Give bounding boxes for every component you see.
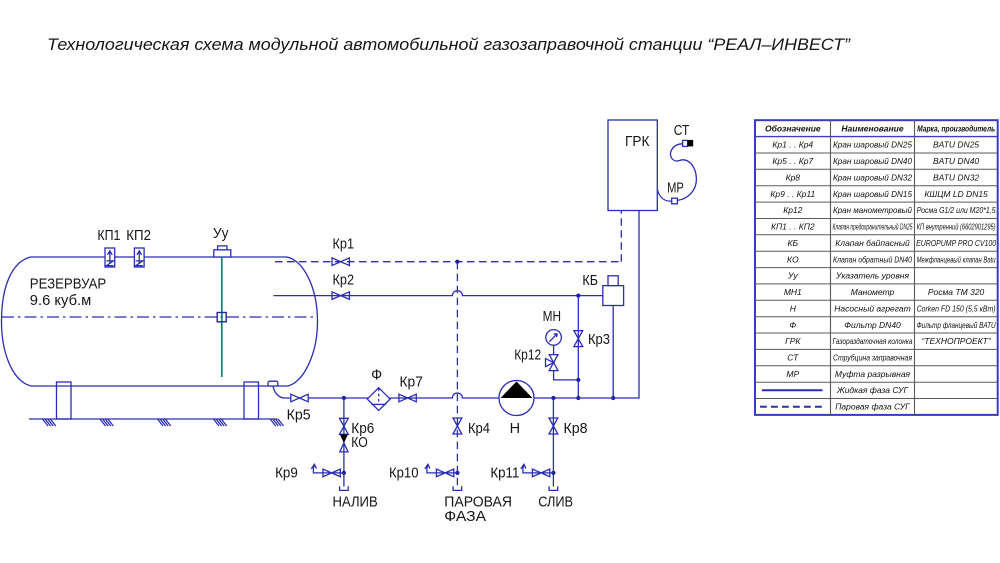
wire: Кр9 branch (313, 472, 344, 474)
support leg left (57, 382, 72, 419)
svg-text:Ф: Ф (789, 320, 796, 330)
valve Кр9 (323, 469, 340, 477)
svg-text:Насосный агрегат: Насосный агрегат (834, 303, 910, 313)
svg-text:КО: КО (351, 435, 368, 451)
valve Кр4 (453, 418, 462, 434)
svg-text:Кр1 . . Кр4: Кр1 . . Кр4 (772, 140, 813, 150)
table row Кр9..Кр11 (770, 189, 988, 199)
table header (765, 123, 995, 133)
svg-text:КБ: КБ (582, 273, 598, 289)
svg-text:КБ: КБ (788, 238, 799, 248)
valve Кр10 (436, 469, 453, 477)
svg-text:СЛИВ: СЛИВ (538, 495, 573, 511)
svg-text:Межфланцевый клапан Batu: Межфланцевый клапан Batu (917, 254, 996, 264)
table row Кр5..Кр7 (772, 156, 979, 166)
svg-text:Фильтр DN40: Фильтр DN40 (844, 320, 901, 330)
svg-text:Кр9: Кр9 (275, 466, 298, 482)
node: vapor branch junction (455, 260, 459, 264)
node: Кр10 branch junction (455, 471, 459, 475)
safety valve КП2 (134, 248, 144, 267)
svg-text:Кр7: Кр7 (400, 375, 423, 391)
svg-text:Указатель уровня: Указатель уровня (835, 271, 909, 281)
svg-text:КО: КО (787, 254, 799, 264)
svg-text:Клапан байпасный: Клапан байпасный (835, 238, 910, 248)
svg-text:Ф: Ф (371, 368, 382, 384)
svg-text:НАЛИВ: НАЛИВ (333, 495, 378, 511)
svg-text:EUROPUMP PRO CV100: EUROPUMP PRO CV100 (916, 238, 996, 248)
svg-text:Кр12: Кр12 (514, 348, 541, 364)
svg-text:Кр11: Кр11 (490, 466, 519, 482)
svg-text:Кран шаровый DN25: Кран шаровый DN25 (833, 140, 912, 150)
svg-text:Клапан обратный DN40: Клапан обратный DN40 (833, 254, 912, 264)
table row КБ (788, 238, 997, 248)
valve Кр1 (332, 258, 349, 266)
wire: МН to Кр12 (553, 345, 555, 354)
level gauge float square (217, 313, 226, 322)
wire: Кр12 down and right to Кр3 riser (554, 371, 579, 380)
tank РЕЗЕРВУАР shell (2, 257, 318, 386)
manometer valve Кр12 (3-way) (546, 355, 558, 371)
wire: vapor phase vertical dashed (ПАРОВАЯ ФАЗА) (456, 262, 458, 487)
wire: Кр3 riser (577, 296, 579, 398)
svg-text:МН1: МН1 (784, 287, 802, 297)
svg-text:Обозначение: Обозначение (765, 123, 821, 133)
svg-text:Кр10: Кр10 (389, 466, 419, 482)
nozzle СТ (683, 140, 694, 147)
vent arrow Кр10 (425, 464, 430, 473)
svg-text:Газораздаточная колонка: Газораздаточная колонка (833, 336, 913, 346)
svg-text:РЕЗЕРВУАР: РЕЗЕРВУАР (30, 277, 106, 293)
svg-text:ГРК: ГРК (785, 336, 801, 346)
table row liquid phase sample (762, 385, 909, 395)
svg-text:Струбцина заправочная: Струбцина заправочная (833, 353, 912, 363)
table row КО (787, 254, 996, 264)
valve Кр5 (291, 394, 308, 402)
safety valve КП1 (105, 248, 115, 267)
svg-text:Кран шаровый DN32: Кран шаровый DN32 (833, 172, 912, 182)
table row МР (786, 369, 910, 379)
wire: КБ down to pump line (612, 306, 614, 399)
svg-text:Кран шаровый DN15: Кран шаровый DN15 (833, 189, 912, 199)
svg-text:СТ: СТ (787, 353, 799, 363)
svg-text:Манометр: Манометр (851, 287, 895, 297)
svg-text:Н: Н (510, 421, 520, 437)
manometer МН (546, 330, 562, 346)
wire: vapor phase dashed line tank to corner (275, 261, 621, 263)
level gauge Уу fitting (214, 246, 231, 257)
svg-text:Кран шаровый DN40: Кран шаровый DN40 (833, 156, 912, 166)
svg-text:Кр9 . . Кр11: Кр9 . . Кр11 (770, 189, 815, 199)
end fitting ПАРОВАЯ ФАЗА (453, 486, 462, 490)
valve Кр8 (549, 418, 558, 434)
wire: vapor dashed riser to ГРК (620, 211, 622, 262)
svg-text:Клапан предохранительный DN25: Клапан предохранительный DN25 (833, 222, 913, 232)
svg-text:Росма G1/2 или М20*1,5: Росма G1/2 или М20*1,5 (917, 205, 996, 215)
svg-text:Кр3: Кр3 (588, 332, 610, 348)
svg-text:ФАЗА: ФАЗА (444, 509, 486, 525)
table row Кр1..Кр4 (772, 140, 979, 150)
table row Кр8 (786, 172, 980, 182)
svg-text:КП1: КП1 (97, 228, 120, 244)
svg-text:СТ: СТ (674, 123, 690, 139)
svg-text:BATU DN25: BATU DN25 (933, 140, 979, 150)
node: junction liquid line / Кр3 riser (576, 294, 580, 298)
svg-text:Кр5 . . Кр7: Кр5 . . Кр7 (772, 156, 813, 166)
breakaway coupling МР (672, 198, 678, 204)
valve Кр11 (532, 469, 549, 477)
pump Н (499, 381, 534, 416)
svg-text:Кр1: Кр1 (333, 236, 355, 252)
svg-text:ГРК: ГРК (625, 134, 650, 150)
support leg right (244, 382, 259, 419)
table row ГРК (785, 336, 992, 346)
svg-text:Наименование: Наименование (841, 123, 903, 133)
valve Кр3 (574, 331, 583, 347)
ground (29, 419, 284, 426)
svg-text:МР: МР (786, 369, 799, 379)
filter Ф (367, 388, 390, 411)
valve Кр7 (399, 394, 416, 402)
svg-text:Кр4: Кр4 (468, 421, 490, 437)
svg-text:Технологическая схема модульно: Технологическая схема модульной автомоби… (47, 35, 851, 54)
table row Н (790, 303, 996, 313)
node: Кр6 branch junction (342, 396, 346, 400)
svg-text:Фильтр фланцевый BATU: Фильтр фланцевый BATU (917, 320, 997, 330)
table row МН1 (784, 287, 985, 297)
check valve КО (340, 435, 348, 452)
svg-text:КП1 . . КП2: КП1 . . КП2 (771, 222, 815, 232)
table row Ф (789, 320, 996, 330)
table row Уу (787, 271, 909, 281)
svg-text:Марка, производитель: Марка, производитель (917, 123, 995, 133)
svg-text:Кр2: Кр2 (333, 273, 355, 289)
svg-text:Кран манометровый: Кран манометровый (833, 205, 912, 215)
svg-text:Муфта разрывная: Муфта разрывная (835, 369, 911, 379)
svg-text:МН: МН (543, 309, 561, 325)
node: СЛИВ branch junction (551, 396, 555, 400)
svg-text:9.6 куб.м: 9.6 куб.м (30, 293, 91, 309)
svg-text:КП внутренний (6602901295): КП внутренний (6602901295) (917, 222, 996, 232)
wire: liquid line tank to КБ with hop (274, 291, 603, 296)
tank bottom outlet fitting (268, 381, 291, 398)
vent arrow Кр9 (311, 464, 316, 473)
svg-text:Кр8: Кр8 (564, 421, 588, 437)
svg-text:КП2: КП2 (126, 228, 151, 244)
end fitting НАЛИВ (340, 486, 349, 490)
svg-text:Кр8: Кр8 (786, 172, 801, 182)
valve Кр6 (340, 418, 349, 434)
node: КБ line / pump line junction (611, 396, 615, 400)
node: Кр3 riser / pump line junction (576, 396, 580, 400)
svg-text:Corken FD 150 (5,5 кВт): Corken FD 150 (5,5 кВт) (917, 303, 996, 313)
svg-text:Уу: Уу (213, 226, 229, 242)
wire: pump line (liquid) with hop over vapor line (308, 211, 639, 398)
hose ГРК to СТ with МР coupling (657, 144, 696, 201)
svg-text:Кр12: Кр12 (783, 205, 802, 215)
svg-text:МР: МР (667, 181, 684, 197)
table frame (755, 120, 998, 415)
table row СТ (787, 353, 912, 363)
svg-text:“ТЕХНОПРОЕКТ”: “ТЕХНОПРОЕКТ” (921, 336, 991, 346)
node: Кр12 branch junction (576, 378, 580, 382)
svg-text:BATU DN32: BATU DN32 (933, 172, 979, 182)
svg-text:Кр5: Кр5 (287, 408, 311, 424)
vent arrow Кр11 (521, 464, 526, 473)
svg-text:BATU DN40: BATU DN40 (933, 156, 979, 166)
svg-text:КШЦМ LD DN15: КШЦМ LD DN15 (924, 189, 988, 199)
node: Кр9 branch junction (342, 471, 346, 475)
svg-text:Росма ТМ 320: Росма ТМ 320 (928, 287, 985, 297)
wire: Кр11 branch (523, 472, 554, 474)
table row Кр12 (783, 205, 996, 215)
svg-text:Жидкая фаза СУГ: Жидкая фаза СУГ (836, 385, 910, 395)
svg-text:Паровая фаза СУГ: Паровая фаза СУГ (835, 402, 911, 412)
dispenser ГРК (608, 120, 657, 211)
table row КП1..КП2 (771, 222, 996, 232)
wire: НАЛИВ branch (343, 398, 345, 487)
tank centerline (2, 316, 316, 318)
svg-text:Уу: Уу (787, 271, 798, 281)
svg-text:Н: Н (790, 303, 797, 313)
bypass valve КБ (603, 276, 624, 306)
table row vapor phase sample (760, 402, 911, 412)
end fitting СЛИВ (549, 486, 558, 490)
node: Кр11 branch junction (551, 471, 555, 475)
wire: Кр10 branch (427, 472, 458, 474)
level gauge tube (teal) (221, 257, 223, 377)
valve Кр2 (332, 292, 349, 300)
wire: СЛИВ branch (552, 398, 554, 487)
